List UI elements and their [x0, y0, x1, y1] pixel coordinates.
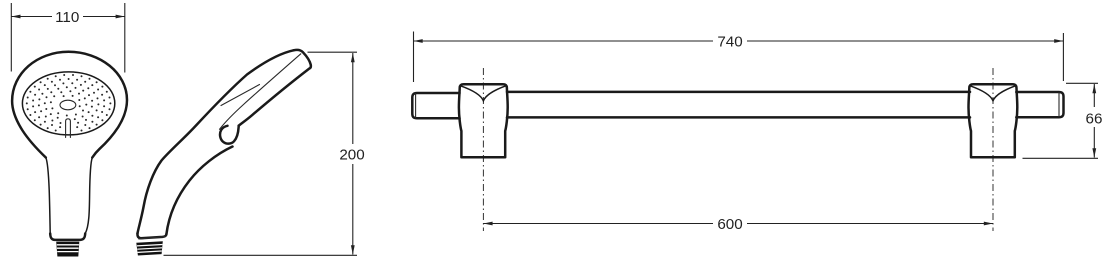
rail: tube between brackets top edge	[507, 91, 970, 94]
rail: tube between brackets bottom edge	[507, 116, 970, 119]
dimension 740 extension line left	[413, 32, 415, 83]
svg-text:600: 600	[717, 216, 742, 233]
handle front view: left edge	[46, 158, 50, 234]
dimension 110 extension line left	[10, 3, 12, 72]
dimension 200 arrow bottom	[351, 245, 355, 254]
left wall bracket cone curve	[461, 86, 506, 101]
dimension 200 arrow top	[351, 53, 355, 62]
handle front view: right edge	[85, 158, 92, 234]
dimension 600 arrow right	[984, 222, 993, 226]
dimension 66 line upper segment	[1093, 84, 1095, 107]
shower head front view: spray nozzle dots	[26, 74, 112, 132]
svg-text:740: 740	[717, 34, 742, 51]
dimension 110 line right segment	[83, 16, 125, 18]
handset side view: handle right edge	[166, 147, 232, 235]
dimension 110 arrow left	[11, 15, 20, 19]
left wall bracket body	[459, 84, 508, 157]
right bracket centreline	[992, 68, 994, 231]
right wall bracket body	[969, 84, 1018, 157]
dimension 66 extension line top	[1066, 82, 1098, 84]
dimension 66 line lower segment	[1093, 127, 1095, 158]
handset side view: surface highlight line	[221, 85, 260, 106]
handset side view: handle bottom edge	[137, 233, 166, 238]
rail: left end cap line	[415, 94, 417, 118]
dimension 200 line lower segment	[352, 164, 354, 255]
left bracket centreline	[482, 68, 484, 231]
dimension 600 line right segment	[747, 223, 993, 225]
dimension 600 arrow left	[483, 222, 492, 226]
right wall bracket cone curve	[970, 86, 1015, 101]
svg-text:110: 110	[55, 9, 79, 26]
shower head front view: centre oval	[60, 100, 76, 110]
rail: right end cap line	[1058, 93, 1060, 117]
dimension 200 extension line top	[308, 51, 358, 53]
dimension 66 arrow top	[1092, 84, 1096, 93]
dimension 110 arrow right	[116, 15, 125, 19]
shower head front view: face plate ellipse	[22, 72, 114, 135]
handle front view: bottom edge	[50, 234, 85, 240]
rail: left end stub	[412, 93, 459, 118]
dimension 740 line right segment	[747, 40, 1063, 42]
dimension 740 arrow right	[1054, 39, 1063, 43]
handset side view: cuff rim line	[139, 237, 165, 239]
shower head front view: centre slot	[66, 119, 71, 138]
dimension 66 extension line bottom	[1023, 157, 1099, 159]
svg-text:200: 200	[339, 147, 364, 164]
shower head front view: outer body outline	[12, 52, 127, 158]
handset side view: face seam line	[220, 54, 301, 130]
dimension 110 line left segment	[11, 16, 52, 18]
handle front view: threaded connector	[56, 242, 79, 257]
dimension 200 line upper segment	[352, 53, 354, 144]
dimension 200 extension line bottom	[164, 254, 358, 256]
dimension 740 arrow left	[414, 39, 423, 43]
handset side view: outer outline	[239, 50, 311, 126]
handset side view: threaded connector	[136, 241, 163, 255]
handset side view: spray mode lever	[220, 126, 239, 144]
handset side view: handle left edge + head top edge	[138, 50, 294, 233]
dimension 110 extension line right	[124, 3, 126, 73]
dimension 66 arrow bottom	[1092, 148, 1096, 157]
dimension 740 extension line right	[1062, 33, 1064, 81]
dimension 600 line left segment	[483, 223, 713, 225]
dimension 740 line left segment	[414, 40, 714, 42]
rail: right end stub	[1016, 92, 1063, 117]
svg-text:66: 66	[1086, 111, 1103, 128]
